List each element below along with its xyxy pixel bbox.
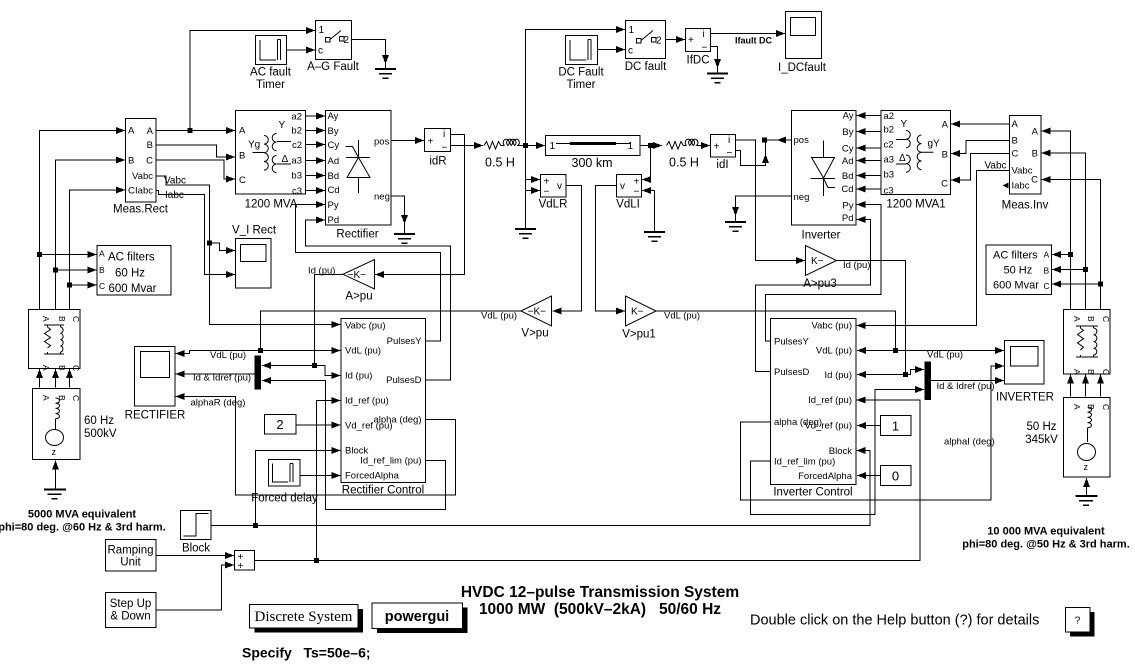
- svg-text:B: B: [1044, 266, 1050, 276]
- svg-text:RECTIFIER: RECTIFIER: [125, 410, 186, 422]
- svg-text:Id (pu): Id (pu): [825, 370, 852, 381]
- wire Rectifier pos to idR: [391, 140, 424, 142]
- svg-text:VdL (pu): VdL (pu): [816, 346, 852, 357]
- svg-text:PulsesY: PulsesY: [774, 337, 810, 348]
- wire PulsesY feedback to Py: [296, 205, 441, 342]
- svg-text:Vabc: Vabc: [164, 176, 186, 187]
- svg-text:Timer: Timer: [256, 79, 285, 91]
- wire idI i measurement down to A>pu3: [736, 140, 806, 261]
- wire alpha (deg) inverter to INVERTER scope: [741, 381, 1005, 501]
- voltage measurement VdLR: [539, 175, 568, 211]
- svg-text:Yg: Yg: [248, 140, 260, 151]
- junction bus A at AC filters (right): [1068, 252, 1073, 257]
- ground (left source): [44, 490, 66, 499]
- svg-text:Block: Block: [829, 446, 852, 457]
- wire DC fault output to IfDC: [666, 39, 686, 41]
- voltage measurement VdLI: [616, 175, 641, 211]
- scope V_I Rect: [232, 225, 277, 289]
- svg-text:B: B: [1086, 369, 1096, 375]
- svg-text:pos: pos: [374, 137, 390, 148]
- wire bus A into Meas.Inv: [1042, 131, 1071, 310]
- svg-text:Id_ref (pu): Id_ref (pu): [808, 395, 852, 406]
- ground (IfDC): [707, 74, 728, 83]
- svg-text:alpha (deg): alpha (deg): [774, 417, 822, 428]
- svg-text:B: B: [239, 151, 245, 162]
- svg-text:A: A: [1044, 250, 1050, 260]
- svg-text:−: −: [544, 187, 550, 198]
- inductor 0.5 H (left smoothing reactor): [484, 139, 519, 149]
- svg-text:Meas.Rect: Meas.Rect: [113, 204, 169, 216]
- block Discrete System (powergui): [250, 605, 364, 633]
- svg-text:neg: neg: [374, 192, 390, 203]
- svg-text:Vabc: Vabc: [1012, 166, 1033, 177]
- scope RECTIFIER: [125, 347, 186, 422]
- svg-text:2: 2: [656, 36, 662, 47]
- svg-text:A>pu3: A>pu3: [803, 278, 837, 290]
- svg-text:2: 2: [276, 417, 283, 432]
- ground (Inverter neg): [725, 222, 746, 231]
- svg-text:?: ?: [1075, 616, 1081, 627]
- svg-text:345kV: 345kV: [1025, 434, 1058, 446]
- svg-text:Vabc: Vabc: [132, 171, 153, 182]
- svg-text:V>pu: V>pu: [521, 328, 548, 340]
- svg-text:v: v: [557, 181, 562, 192]
- wire Meas.Rect C to transformer: [156, 160, 235, 179]
- thyristor icon (inverter, flipped): [811, 141, 836, 197]
- svg-text:c2: c2: [292, 140, 302, 151]
- block AC filters 50 Hz 600 Mvar: [986, 245, 1052, 295]
- svg-text:VdLR: VdLR: [539, 199, 568, 211]
- junction phase A at AC filters: [37, 252, 42, 257]
- wire C to AC filters: [70, 284, 97, 286]
- wire PulsesY (inverter) feedback to Py: [766, 205, 882, 342]
- wire DC Fault Timer to DC fault c: [598, 49, 626, 51]
- svg-text:Id_ref_lim (pu): Id_ref_lim (pu): [360, 456, 421, 467]
- svg-text:Double click on the Help butto: Double click on the Help button (?) for …: [750, 613, 1039, 629]
- svg-text:DC fault: DC fault: [625, 61, 667, 73]
- junction Block: [253, 523, 258, 528]
- wire Meas.Rect A to transformer (junction at 190): [156, 130, 235, 132]
- svg-text:1: 1: [319, 25, 325, 36]
- svg-text:1200 MVA1: 1200 MVA1: [886, 199, 945, 211]
- wire VdL line to RECTIFIER scope: [176, 351, 261, 354]
- svg-text:Rectifier Control: Rectifier Control: [342, 485, 424, 497]
- wire idR to smoothing reactor: [451, 145, 484, 147]
- junction Id (pu) inverter side: [903, 372, 908, 377]
- svg-text:Pd: Pd: [328, 215, 340, 226]
- transformer 1200 MVA1: [881, 111, 951, 211]
- wire DC junction down to VdLR and ground: [525, 146, 527, 229]
- svg-text:C: C: [128, 186, 135, 197]
- svg-text:Δ: Δ: [282, 154, 289, 165]
- svg-text:0: 0: [892, 469, 899, 484]
- block Ramping Unit: [106, 540, 157, 572]
- svg-text:C: C: [146, 156, 153, 167]
- wire Vabc from Meas.Inv down to Inverter Control: [857, 171, 1010, 326]
- svg-text:B: B: [942, 150, 948, 161]
- block Step Up & Down: [106, 593, 157, 628]
- svg-text:Specify Ts=50e–6;: Specify Ts=50e–6;: [242, 645, 371, 661]
- svg-text:DC Fault: DC Fault: [558, 67, 604, 79]
- svg-text:A–G Fault: A–G Fault: [307, 61, 360, 73]
- svg-text:Y: Y: [901, 119, 908, 130]
- svg-text:pos: pos: [794, 135, 810, 146]
- wire Forced delay to ForcedAlpha: [300, 475, 341, 477]
- svg-text:A: A: [1072, 369, 1082, 375]
- wire A to AC filters: [40, 254, 97, 256]
- wire constant 2 to Vd_ref: [296, 424, 341, 426]
- wire PulsesD (inverter) feedback to Pd: [756, 220, 871, 372]
- svg-text:Cd: Cd: [841, 184, 853, 195]
- svg-text:Y: Y: [279, 120, 286, 131]
- block Forced delay: [251, 460, 318, 505]
- svg-text:c3: c3: [292, 186, 302, 197]
- svg-text:−K−: −K−: [528, 307, 547, 318]
- wire phase B bus into Meas.Rect: [56, 160, 126, 310]
- block RLC equivalent source branch (right): [1064, 310, 1112, 376]
- svg-text:C: C: [941, 179, 948, 190]
- svg-text:A: A: [99, 249, 105, 259]
- svg-text:+: +: [688, 35, 694, 46]
- svg-text:Ad: Ad: [842, 156, 854, 167]
- svg-text:A: A: [1072, 316, 1082, 322]
- svg-text:B: B: [99, 265, 105, 275]
- svg-text:powergui: powergui: [385, 609, 449, 625]
- block RLC equivalent source branch (left): [29, 310, 82, 372]
- svg-text:HVDC 12–pulse Transmission Sys: HVDC 12–pulse Transmission System: [461, 584, 739, 601]
- svg-text:IfDC: IfDC: [687, 55, 710, 67]
- svg-text:1000 MW (500kV–2kA) 50/60 H: 1000 MW (500kV–2kA) 50/60 Hz: [479, 601, 721, 618]
- svg-text:Ifault DC: Ifault DC: [735, 36, 772, 46]
- block Inverter (12-pulse bridge): [792, 111, 857, 242]
- svg-text:Cy: Cy: [328, 140, 340, 151]
- svg-text:B: B: [128, 156, 134, 167]
- wire VdL line into Rectifier Control: [261, 350, 341, 352]
- svg-text:K−: K−: [631, 307, 644, 318]
- svg-text:A: A: [41, 316, 51, 322]
- wire Vabc branch to V_I Rect scope: [210, 243, 236, 251]
- wire bus B into Meas.Inv: [1042, 153, 1086, 310]
- wire Iabc from Meas.Rect to V_I Rect: [156, 191, 235, 275]
- svg-text:B: B: [1032, 149, 1038, 160]
- svg-text:500kV: 500kV: [84, 428, 117, 440]
- svg-text:C: C: [71, 395, 81, 401]
- svg-text:C: C: [1101, 316, 1111, 322]
- svg-text:300 km: 300 km: [572, 156, 613, 170]
- svg-text:a3: a3: [884, 155, 895, 166]
- svg-text:VdL (pu): VdL (pu): [927, 350, 963, 361]
- wire V>pu output to VdL line: [261, 311, 522, 351]
- wire ground to source (right): [1086, 478, 1088, 496]
- svg-text:PulsesD: PulsesD: [774, 367, 810, 378]
- svg-text:60 Hz: 60 Hz: [84, 415, 114, 427]
- svg-text:Id & Idref (pu): Id & Idref (pu): [937, 381, 995, 392]
- scope I_DCfault: [778, 12, 827, 75]
- block Meas.Inv: [1002, 116, 1049, 212]
- mux (inverter scope): [925, 362, 932, 401]
- current measurement idI: [711, 135, 736, 172]
- svg-text:b3: b3: [884, 170, 895, 181]
- svg-text:A: A: [41, 395, 51, 401]
- wire Vabc from Meas.Rect down to Rectifier Control: [156, 176, 341, 325]
- junction VdL (pu) inverter side: [893, 348, 898, 353]
- ground (Rectifier neg): [394, 234, 415, 243]
- svg-text:PulsesY: PulsesY: [387, 336, 423, 347]
- svg-text:i: i: [728, 135, 730, 146]
- svg-text:C: C: [1101, 369, 1111, 375]
- wires source to RLC (right, up arrows): [1070, 375, 1072, 397]
- wire idR i measurement down to A>pu: [375, 135, 465, 275]
- svg-text:By: By: [328, 126, 339, 137]
- svg-text:Timer: Timer: [567, 79, 596, 91]
- svg-text:c: c: [318, 46, 323, 57]
- svg-text:C: C: [1101, 404, 1111, 410]
- wire Block signal across to both controls: [211, 451, 870, 526]
- svg-text:phi=80 deg. @50 Hz & 3rd harm.: phi=80 deg. @50 Hz & 3rd harm.: [962, 539, 1130, 551]
- svg-text:B: B: [1012, 136, 1018, 147]
- junction Id (pu): [312, 363, 317, 368]
- svg-text:By: By: [842, 127, 853, 138]
- wire Id_ref_lim to mux input 2: [262, 381, 446, 510]
- svg-text:z: z: [1084, 462, 1089, 472]
- svg-text:B: B: [1086, 316, 1096, 322]
- svg-text:b2: b2: [291, 126, 302, 137]
- svg-text:50 Hz: 50 Hz: [1026, 421, 1056, 433]
- svg-text:alphaI (deg): alphaI (deg): [944, 437, 995, 448]
- svg-text:A: A: [1012, 119, 1019, 130]
- current measurement idR: [425, 129, 451, 168]
- wire A>pu output down to junction: [315, 275, 344, 366]
- wire VdLI v output to V>pu1: [596, 186, 626, 312]
- wire AC fault Timer to A-G Fault c: [287, 49, 316, 51]
- block step Block: [181, 511, 212, 555]
- wire alpha (deg) to RECTIFIER scope: [176, 397, 456, 496]
- wire mux output to INVERTER scope: [931, 366, 1004, 381]
- AC fault Timer block: [250, 36, 292, 92]
- wire Inverter neg to ground: [736, 196, 792, 216]
- svg-text:1200 MVA: 1200 MVA: [245, 199, 298, 211]
- block 60 Hz 500kV source (left): [33, 389, 82, 460]
- wire bus C into Meas.Inv: [1042, 180, 1101, 310]
- svg-text:idR: idR: [429, 156, 446, 168]
- junction at Inverter pos: [762, 138, 767, 143]
- svg-text:Inverter Control: Inverter Control: [773, 487, 852, 499]
- mux (rectifier scope): [255, 356, 262, 390]
- wire Block to Rectifier Control: [256, 451, 341, 526]
- wires transformer secondaries a2-c3 to Rectifier: [306, 115, 326, 117]
- svg-text:C: C: [99, 281, 105, 291]
- svg-text:gY: gY: [928, 139, 941, 150]
- wire Id_ref_lim (inverter) to mux input 2: [751, 390, 925, 515]
- svg-text:+: +: [428, 137, 434, 148]
- wires source to RLC branch (up arrows): [39, 369, 41, 388]
- svg-text:c2: c2: [884, 140, 894, 151]
- svg-text:Discrete System: Discrete System: [255, 609, 353, 625]
- wire constant 1 to Vd_ref: [857, 425, 881, 427]
- wire phase C bus into Meas.Rect: [70, 190, 126, 310]
- wire Id to Rectifier Control: [315, 366, 341, 376]
- wire Meas.Inv C to transformer: [951, 154, 1010, 181]
- svg-text:C: C: [239, 175, 246, 186]
- svg-text:5000 MVA equivalent: 5000 MVA equivalent: [28, 509, 137, 521]
- svg-text:C: C: [71, 365, 81, 371]
- svg-text:c3: c3: [884, 186, 894, 197]
- svg-text:idI: idI: [716, 159, 728, 171]
- svg-text:ForcedAlpha: ForcedAlpha: [798, 471, 853, 482]
- block 300 km line: [546, 136, 641, 171]
- junction VdL (pu): [258, 348, 263, 353]
- svg-text:Δ: Δ: [899, 153, 906, 164]
- svg-text:I_DCfault: I_DCfault: [778, 62, 827, 74]
- svg-text:A: A: [942, 120, 949, 131]
- svg-text:0.5 H: 0.5 H: [485, 156, 515, 170]
- svg-text:Bd: Bd: [842, 171, 854, 182]
- svg-text:V_I Rect: V_I Rect: [232, 225, 277, 237]
- svg-text:Id_ref_lim (pu): Id_ref_lim (pu): [774, 457, 835, 468]
- wire B to AC filters: [56, 269, 97, 271]
- svg-text:A: A: [41, 365, 51, 371]
- svg-text:Vabc (pu): Vabc (pu): [812, 321, 852, 332]
- svg-text:A: A: [147, 126, 154, 137]
- wire IfDC i output to I_DCfault scope: [711, 33, 786, 35]
- gain A>pu: [343, 260, 375, 303]
- svg-text:a2: a2: [291, 112, 302, 123]
- svg-text:i: i: [443, 129, 445, 140]
- svg-text:v: v: [620, 181, 625, 192]
- svg-text:VdLI: VdLI: [616, 199, 640, 211]
- svg-text:600 Mvar: 600 Mvar: [993, 280, 1039, 292]
- gain V>pu: [521, 296, 552, 340]
- junction Vabc to V_I Rect: [207, 241, 212, 246]
- scope INVERTER: [996, 341, 1054, 404]
- svg-text:K−: K−: [811, 256, 824, 267]
- svg-text:a2: a2: [884, 111, 895, 122]
- constant 2: [265, 415, 297, 435]
- wire Id_ref from sum to both controls: [255, 400, 921, 561]
- help ? button: [1066, 608, 1095, 637]
- svg-text:Py: Py: [328, 200, 339, 211]
- gain A>pu3: [803, 246, 837, 291]
- svg-text:Meas.Inv: Meas.Inv: [1002, 200, 1049, 212]
- junction phase B at AC filters: [53, 268, 58, 273]
- svg-text:ForcedAlpha: ForcedAlpha: [345, 471, 400, 482]
- junction Id_ref: [314, 558, 319, 563]
- block powergui button: [372, 603, 468, 633]
- svg-text:B: B: [147, 140, 153, 151]
- svg-text:Step Up: Step Up: [110, 598, 152, 610]
- svg-text:A>pu: A>pu: [345, 291, 372, 303]
- svg-text:Cd: Cd: [328, 185, 340, 196]
- svg-text:B: B: [57, 395, 67, 401]
- svg-text:alphaR (deg): alphaR (deg): [191, 398, 246, 409]
- svg-text:b3: b3: [291, 171, 302, 182]
- svg-text:A: A: [1032, 127, 1039, 138]
- wire Id into Inverter Control: [857, 374, 906, 376]
- svg-text:−K−: −K−: [348, 270, 367, 281]
- svg-text:Py: Py: [842, 201, 853, 212]
- svg-text:1: 1: [629, 25, 635, 36]
- DC Fault Timer block: [558, 36, 604, 92]
- junction phase C at AC filters: [67, 283, 72, 288]
- ground (right source): [1076, 496, 1098, 505]
- ground (VdLR): [515, 229, 536, 238]
- wire A-G Fault output to ground: [352, 40, 386, 65]
- thyristor icon: [346, 140, 371, 193]
- wire mux output to RECTIFIER scope: [176, 373, 255, 375]
- wire Id jog to mux (inverter): [906, 370, 925, 375]
- wire IfDC minus to ground: [711, 47, 718, 69]
- svg-text:−: −: [727, 148, 733, 159]
- svg-text:Block: Block: [182, 543, 210, 555]
- svg-text:c: c: [628, 46, 633, 57]
- svg-text:50 Hz: 50 Hz: [1004, 265, 1033, 277]
- svg-text:AC filters: AC filters: [993, 250, 1038, 262]
- svg-text:Ay: Ay: [843, 111, 854, 122]
- wire idI minus to Inverter pos: [736, 151, 766, 166]
- svg-text:AC filters: AC filters: [108, 252, 155, 264]
- svg-text:C: C: [71, 316, 81, 322]
- block Rectifier Control: [341, 319, 426, 497]
- svg-text:Iabc: Iabc: [165, 190, 184, 201]
- svg-text:+: +: [714, 142, 720, 153]
- svg-text:phi=80 deg. @60 Hz & 3rd harm.: phi=80 deg. @60 Hz & 3rd harm.: [0, 522, 166, 534]
- svg-text:A: A: [239, 126, 246, 137]
- svg-text:& Down: & Down: [110, 611, 150, 623]
- wire Ramping Unit to sum: [156, 555, 234, 557]
- svg-text:PulsesD: PulsesD: [386, 375, 422, 386]
- svg-text:V>pu1: V>pu1: [622, 329, 656, 341]
- wire VdLR v output to V>pu: [553, 186, 582, 312]
- sum block: [235, 551, 255, 573]
- svg-text:A: A: [128, 126, 135, 137]
- svg-text:10 000 MVA equivalent: 10 000 MVA equivalent: [987, 526, 1105, 538]
- svg-text:Cy: Cy: [842, 144, 854, 155]
- block AC filters 60 Hz 600 Mvar: [97, 246, 171, 296]
- svg-text:Ay: Ay: [328, 111, 339, 122]
- wire Meas.Inv B to transformer: [951, 141, 1010, 154]
- svg-text:VdL (pu): VdL (pu): [664, 311, 700, 322]
- svg-text:B: B: [57, 316, 67, 322]
- svg-text:1: 1: [892, 419, 899, 434]
- wire V>pu1 output to inverter VdL line: [656, 311, 896, 351]
- svg-text:INVERTER: INVERTER: [996, 392, 1054, 404]
- gain V>pu1: [622, 296, 656, 341]
- svg-text:AC fault: AC fault: [250, 67, 292, 79]
- wires transformer 1200 MVA1 to Inverter a2-c3: [857, 115, 882, 117]
- svg-text:Iabc: Iabc: [1012, 181, 1030, 192]
- svg-text:Rectifier: Rectifier: [336, 229, 378, 241]
- wire Meas.Inv A to transformer: [951, 123, 1010, 125]
- wire reactor to 300 km line: [518, 145, 546, 147]
- svg-text:a3: a3: [291, 156, 302, 167]
- svg-text:Id (pu): Id (pu): [345, 371, 372, 382]
- svg-text:Forced delay: Forced delay: [251, 493, 318, 505]
- svg-text:600 Mvar: 600 Mvar: [109, 283, 157, 295]
- svg-text:Bd: Bd: [328, 171, 340, 182]
- wire junction down to VdLI and ground: [650, 146, 652, 180]
- stub Iabc unconnected: [1003, 183, 1009, 189]
- svg-text:1: 1: [627, 141, 633, 152]
- wire phase A bus into Meas.Rect: [40, 131, 126, 310]
- svg-text:Vabc: Vabc: [985, 161, 1007, 172]
- block Meas.Rect: [113, 119, 169, 216]
- wire Id to mux: [262, 365, 315, 367]
- svg-text:Ramping: Ramping: [107, 545, 153, 557]
- svg-text:0.5 H: 0.5 H: [669, 156, 699, 170]
- wire A-phase to A-G Fault input 1: [190, 31, 315, 131]
- svg-text:−: −: [702, 43, 708, 54]
- svg-text:i: i: [703, 29, 705, 40]
